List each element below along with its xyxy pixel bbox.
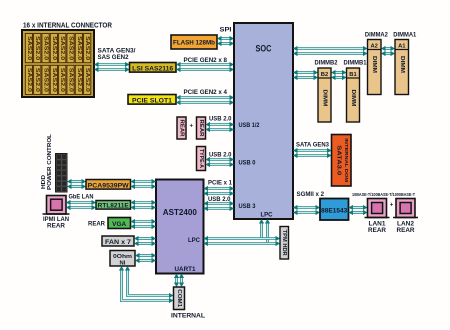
header TPM HDR (280, 227, 289, 260)
wire LPC bus AST2400 to TPM HDR pair (204, 236, 281, 246)
block SOC (234, 23, 293, 219)
wire USB 2.0 rear pair (206, 122, 235, 132)
connector SATA3.0 INTERNAL DOM (332, 135, 352, 187)
svg-text:REAR: REAR (47, 223, 65, 230)
svg-text:DIMM: DIMM (399, 56, 405, 73)
svg-text:DIMM: DIMM (322, 90, 328, 107)
wire USB 2.0 type-a pair (206, 157, 235, 167)
chip LSI SAS2116 (130, 63, 177, 73)
connector USB TYPE-A (197, 147, 206, 171)
resistor 0Ohm NI (110, 251, 135, 267)
svg-text:0Ohm: 0Ohm (113, 254, 132, 260)
gpio expander PCA9539PW (86, 180, 131, 190)
svg-text:COM1: COM1 (176, 289, 182, 307)
wire SATA GEN3 pair (293, 148, 332, 158)
wire DIMM B2 to B1 pair (331, 70, 347, 80)
svg-text:SAS2.0: SAS2.0 (59, 68, 65, 92)
slot DIMMA2 (368, 40, 382, 95)
svg-text:DIMMA1: DIMMA1 (393, 32, 416, 39)
svg-text:UART1: UART1 (175, 266, 197, 273)
svg-text:SGMII x 2: SGMII x 2 (297, 191, 325, 198)
svg-text:PCIE GEN2 x 4: PCIE GEN2 x 4 (184, 89, 228, 96)
svg-text:USB 2.0: USB 2.0 (208, 196, 231, 203)
svg-text:USB 3: USB 3 (239, 203, 257, 210)
slot DIMMB1 (347, 68, 360, 122)
port LAN1 (365, 199, 390, 235)
svg-text:DIMMB1: DIMMB1 (344, 60, 367, 67)
slot DIMMA1 (395, 40, 409, 95)
wire PCA9539PW to AST2400 pair (131, 179, 157, 189)
wire 88E1543 to LAN pair (349, 205, 368, 215)
svg-text:HDD: HDD (41, 175, 47, 189)
svg-text:SAS GEN2: SAS GEN2 (98, 54, 129, 61)
wire 0Ohm NI to AST2400 pair (135, 253, 156, 263)
phy 88E1543 (320, 199, 349, 221)
svg-text:SAS2.0: SAS2.0 (26, 68, 32, 92)
svg-text:SAS2.0: SAS2.0 (34, 36, 40, 60)
bmc AST2400 (156, 180, 204, 274)
svg-text:SPI: SPI (220, 27, 232, 34)
svg-text:TPM HDR: TPM HDR (281, 230, 287, 256)
svg-text:SAS2.0: SAS2.0 (76, 36, 82, 60)
label HDD POWER CONTROL (41, 133, 53, 190)
svg-text:SAS2.0: SAS2.0 (84, 68, 90, 92)
svg-text:SAS2.0: SAS2.0 (43, 68, 49, 92)
wire SPI pair (217, 36, 234, 46)
svg-text:SAS2.0: SAS2.0 (84, 36, 90, 60)
svg-text:LSI SAS2116: LSI SAS2116 (132, 65, 173, 72)
svg-text:+: + (189, 123, 193, 129)
phy RTL8211E (96, 201, 131, 210)
svg-text:REAR: REAR (88, 221, 105, 228)
svg-text:PCIE x 1: PCIE x 1 (208, 180, 232, 187)
wire RTL8211E to AST2400 pair (131, 200, 157, 210)
svg-text:INTERNAL: INTERNAL (171, 313, 205, 320)
port IPMI LAN (43, 196, 70, 230)
header FAN x 7 (102, 236, 134, 246)
svg-text:16 x INTERNAL CONNECTOR: 16 x INTERNAL CONNECTOR (23, 23, 112, 30)
slot DIMMB2 (318, 68, 331, 122)
svg-text:SATA GEN3: SATA GEN3 (296, 142, 329, 149)
connector J-SAS 16x internal connector (22, 30, 94, 97)
svg-text:PCA9539PW: PCA9539PW (88, 182, 129, 189)
svg-text:DIMM: DIMM (350, 90, 356, 107)
wire header to PCA9539PW pair (67, 179, 86, 189)
svg-text:USB 2.0: USB 2.0 (209, 116, 232, 123)
svg-text:SAS2.0: SAS2.0 (68, 36, 74, 60)
svg-text:SAS2.0: SAS2.0 (43, 36, 49, 60)
svg-text:B2: B2 (321, 72, 328, 78)
wire memory channel B pair (293, 70, 318, 80)
svg-text:SAS2.0: SAS2.0 (76, 68, 82, 92)
svg-text:SAS2.0: SAS2.0 (34, 68, 40, 92)
svg-text:88E1543: 88E1543 (321, 208, 348, 215)
label SATA GEN3/ SAS GEN2 (98, 48, 136, 62)
svg-text:LPC: LPC (261, 212, 274, 219)
svg-text:SAS2.0: SAS2.0 (26, 36, 32, 60)
svg-text:USB 1/2: USB 1/2 (239, 122, 260, 129)
svg-text:INTERNAL DOM: INTERNAL DOM (343, 138, 349, 182)
wire SGMII x 2 pair (293, 205, 320, 215)
wire DIMM A2 to A1 pair (381, 46, 395, 56)
header COM1 (174, 287, 185, 310)
connector USB REAR 1 (177, 117, 186, 139)
svg-text:NI: NI (120, 260, 126, 266)
wire UART1 to COM1 pair (174, 274, 184, 288)
wire USB 2.0 bmc pair (204, 201, 235, 211)
svg-text:REAR: REAR (368, 227, 386, 234)
svg-text:POWER CONTROL: POWER CONTROL (47, 133, 53, 190)
svg-text:PCIE GEN2 x 8: PCIE GEN2 x 8 (184, 57, 228, 64)
wire PCIE x 1 pair (204, 186, 235, 196)
svg-text:PCIE SLOT1: PCIE SLOT1 (132, 97, 172, 104)
svg-text:VGA: VGA (112, 221, 126, 228)
svg-text:GbE LAN: GbE LAN (69, 194, 94, 201)
port VGA (108, 218, 131, 229)
wire memory channel A pair (293, 46, 368, 56)
svg-text:SOC: SOC (256, 44, 273, 54)
wire 0Ohm NI to COM1 path B (125, 266, 174, 298)
svg-text:SAS2.0: SAS2.0 (51, 36, 57, 60)
svg-text:DIMM: DIMM (371, 56, 377, 73)
svg-text:REAR: REAR (397, 227, 415, 234)
svg-text:USB 0: USB 0 (239, 160, 257, 167)
svg-text:FAN x 7: FAN x 7 (105, 239, 132, 246)
svg-text:SAS2.0: SAS2.0 (68, 68, 74, 92)
header HDD power control pins (56, 154, 68, 193)
wire VGA to AST2400 pair (131, 219, 157, 229)
svg-text:+: + (390, 203, 394, 209)
svg-text:B1: B1 (349, 72, 357, 78)
wire 0Ohm NI to COM1 path A (119, 266, 174, 303)
svg-text:LPC: LPC (188, 237, 201, 244)
wire PCIE GEN2 x 8 pair (176, 62, 234, 72)
svg-text:DIMMB2: DIMMB2 (315, 60, 338, 67)
svg-text:RTL8211E: RTL8211E (98, 203, 129, 210)
svg-text:A2: A2 (370, 44, 377, 50)
wire IPMI LAN to RTL8211E pair (66, 200, 96, 210)
svg-text:REAR: REAR (179, 120, 185, 137)
connector USB REAR 2 (197, 117, 206, 139)
wire PCIE GEN2 x 4 pair (176, 95, 234, 105)
port LAN2 (393, 199, 418, 235)
slot PCIE SLOT1 (128, 95, 176, 105)
wire SATA GEN3/SAS GEN2 pair (94, 62, 130, 72)
svg-text:FLASH 128Mb: FLASH 128Mb (173, 40, 215, 47)
svg-text:USB 2.0: USB 2.0 (209, 152, 232, 159)
svg-text:SATA3.0: SATA3.0 (335, 145, 341, 175)
wire FAN to AST2400 pair (134, 236, 156, 246)
wire LPC branch to SOC (259, 219, 270, 244)
svg-text:AST2400: AST2400 (163, 208, 197, 217)
svg-text:TYPE-A: TYPE-A (198, 149, 204, 168)
svg-text:SAS2.0: SAS2.0 (59, 36, 65, 60)
svg-text:REAR: REAR (198, 120, 204, 137)
svg-text:DIMMA2: DIMMA2 (365, 32, 388, 39)
chip FLASH 128Mb (171, 35, 217, 49)
svg-text:SAS2.0: SAS2.0 (51, 68, 57, 92)
svg-text:10BASE-T/100BASE-T/1000BASE-T: 10BASE-T/100BASE-T/1000BASE-T (352, 192, 415, 197)
svg-text:A1: A1 (398, 44, 406, 50)
